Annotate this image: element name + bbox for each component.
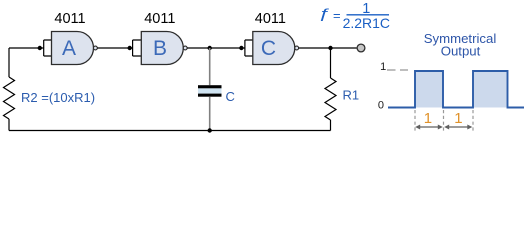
svg-text:4011: 4011 [255,11,286,27]
wire: gate A output to gate B [97,47,132,49]
NAND gate A body [52,32,94,65]
wire: gate B output to gate C [187,47,245,49]
output terminal [357,44,365,52]
dashed tick t2 [472,110,474,133]
arrow period 2 [448,126,469,128]
svg-text:R1: R1 [343,88,360,103]
node capacitor top junction [208,46,212,50]
svg-text:2.2R1C: 2.2R1C [343,15,390,31]
NAND gate C body [253,32,295,65]
wire: R2 bottom lead [8,119,10,131]
dashed tick t1 [443,110,445,133]
wire: R2 top lead [8,48,10,77]
svg-text:C: C [261,37,276,60]
node R1 top junction [328,46,332,50]
gate C inversion bubble [295,46,299,50]
node B input junction [128,46,132,50]
resistor R1 [325,78,336,120]
wire: gate C input bracket [245,40,253,56]
svg-text:ƒ: ƒ [318,6,330,21]
dashed tick t0 [414,110,416,133]
wire: left feedback loop top segment [9,47,44,49]
gate B inversion bubble [183,46,187,50]
capacitor C plates [198,88,222,93]
waveform trace [388,71,524,108]
node C input junction [239,46,243,50]
wire: R1 bottom lead [330,120,332,131]
svg-text:=: = [333,8,341,23]
svg-text:B: B [153,37,167,60]
gate A inversion bubble [94,46,98,50]
arrow period 1 [419,126,440,128]
wire: gate A input bracket [44,40,52,56]
svg-text:Output: Output [441,44,481,59]
svg-text:4011: 4011 [144,11,175,27]
svg-text:1: 1 [454,110,462,127]
node capacitor bottom junction [208,128,212,132]
svg-text:A: A [62,37,76,60]
wire: gate C output to terminal [299,47,357,49]
wire: bottom rail [9,130,331,132]
wire: R1 top lead [330,48,332,78]
capacitor C bottom lead [209,97,211,131]
svg-text:4011: 4011 [54,11,85,27]
dashed high level [387,69,408,71]
node A input junction [38,46,42,50]
NAND gate B body [141,32,183,65]
waveform pulse fills [415,71,508,108]
svg-text:1: 1 [380,61,386,73]
formula f = 1/2.2R1C [318,6,330,21]
svg-text:0: 0 [378,100,384,112]
wire: gate B input bracket [133,40,142,56]
svg-text:1: 1 [424,110,432,127]
svg-text:C: C [226,89,235,104]
resistor R2 [4,77,15,119]
svg-text:R2 =(10xR1): R2 =(10xR1) [21,90,95,105]
capacitor C top lead [209,48,211,85]
